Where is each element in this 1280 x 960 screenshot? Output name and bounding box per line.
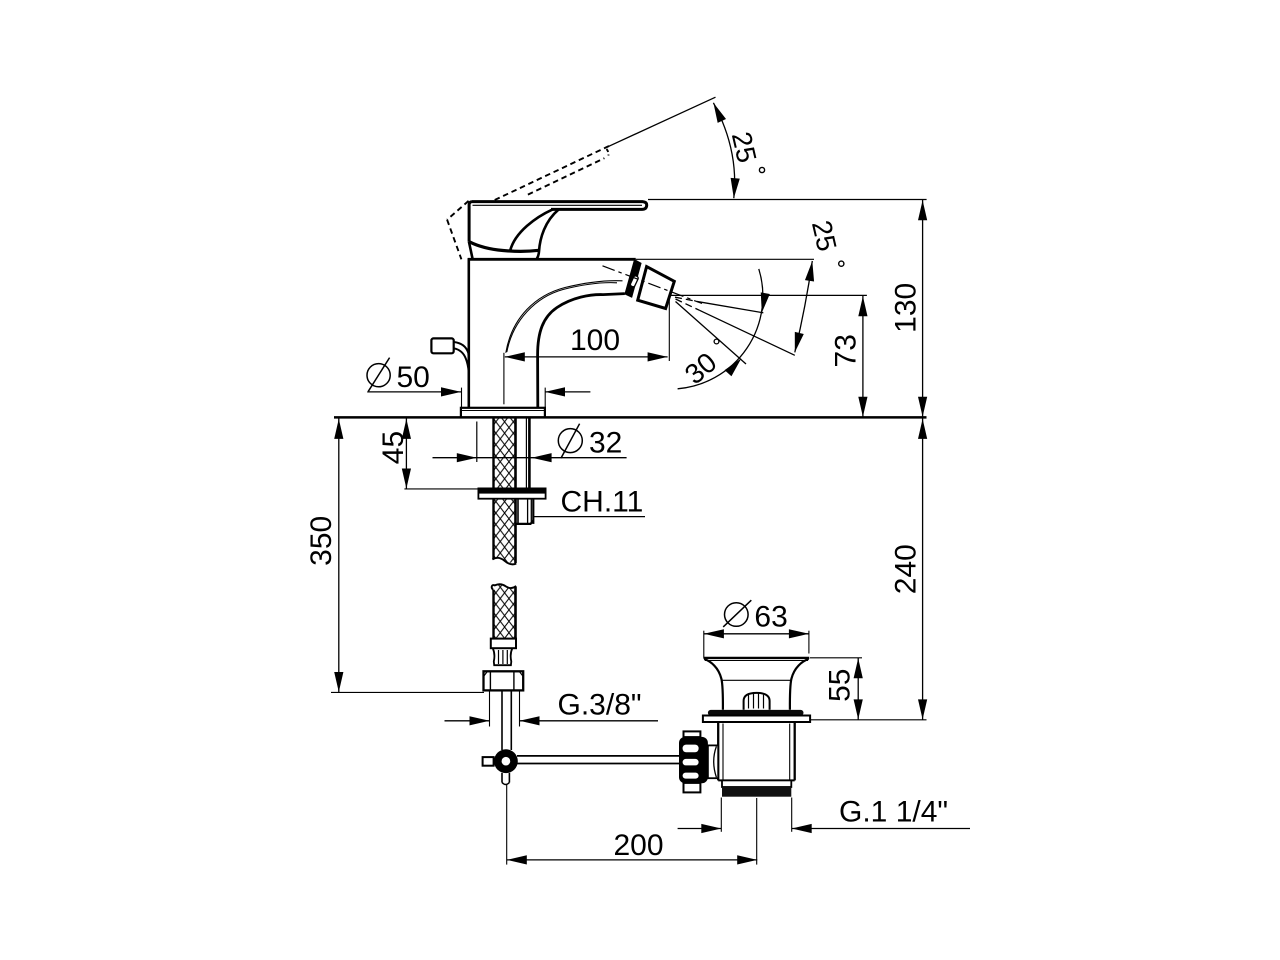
drain rubber washer (708, 710, 804, 716)
svg-text:45: 45 (377, 431, 410, 464)
svg-text:G.1 1/4": G.1 1/4" (839, 796, 948, 829)
angle arc 25 lower (790, 260, 817, 353)
angle arc 30 (678, 269, 770, 389)
angle arc 25 top (709, 101, 740, 199)
spray line 40deg (676, 302, 747, 365)
svg-text:240: 240 (890, 544, 923, 594)
svg-text:100: 100 (570, 324, 620, 357)
svg-text:50: 50 (397, 361, 430, 394)
rod ball joint (483, 749, 518, 773)
spray line 9deg (675, 297, 763, 313)
svg-text:G.3/8": G.3/8" (558, 689, 642, 722)
dimension 45 (377, 419, 479, 489)
rod clamp connector (708, 745, 718, 778)
dimension 73 (829, 296, 867, 417)
pop-up rod tube (502, 690, 511, 750)
dimension 130 (648, 200, 927, 418)
hose end collar (491, 639, 516, 649)
label 25 deg lower (806, 217, 844, 266)
svg-text:55: 55 (824, 669, 857, 702)
threaded shank below deck (477, 419, 530, 489)
drain flange trumpet (704, 658, 810, 710)
dimension 240 (811, 419, 927, 720)
horizontal rod to drain (517, 756, 679, 764)
hex nut CH11 (516, 499, 533, 524)
svg-text:130: 130 (890, 283, 923, 333)
svg-text:CH.11: CH.11 (561, 486, 644, 519)
braided hose upper (494, 419, 516, 489)
dimension 350 (305, 419, 484, 693)
handle lever plate (469, 202, 647, 242)
drain body (718, 722, 795, 780)
rod below ball (502, 773, 509, 785)
label 30 deg (679, 339, 723, 390)
svg-text:350: 350 (305, 516, 338, 566)
faucet body (468, 258, 636, 408)
handle neck (510, 209, 558, 258)
label CH.11 (534, 486, 646, 519)
dimension G 1 1/4 (678, 796, 970, 834)
svg-text:63: 63 (754, 601, 787, 634)
G 3/8 connector nut (484, 671, 524, 690)
spout highlight curves (506, 281, 623, 353)
aerator top reference line (636, 258, 814, 260)
drain lower band (722, 780, 791, 787)
svg-text:200: 200 (614, 829, 664, 862)
hose crimp section (493, 648, 513, 665)
aerator head (625, 260, 674, 309)
braided hose middle (492, 499, 516, 576)
raised handle dashed outline (447, 146, 609, 259)
handle 25 deg reference line (606, 97, 716, 148)
svg-text:73: 73 (829, 334, 862, 367)
dimension 200 (507, 784, 758, 865)
dimension dia 32 (433, 424, 627, 463)
drain washer plate (703, 716, 810, 723)
dimension G 3/8 (445, 689, 659, 727)
dimension dia 50 (367, 358, 590, 408)
dimension 55 (810, 658, 863, 720)
spray line horizontal (73 extension) (671, 294, 867, 296)
aerator axis dash-dot (603, 266, 703, 304)
faucet base plinth (461, 408, 545, 417)
spray line 25deg (676, 299, 795, 355)
dimension dia 63 (704, 600, 809, 658)
handle skirt (469, 242, 539, 259)
dimension 100 (504, 297, 669, 404)
knurled rod nut (679, 731, 708, 792)
pop-up rod knob (431, 338, 468, 371)
drain tail thread G 1 1/4 (722, 787, 791, 797)
label 25 deg top (726, 129, 765, 173)
braided hose lower (492, 578, 516, 639)
drain pull knob (744, 693, 770, 710)
horseshoe washer (478, 488, 545, 498)
svg-text:32: 32 (589, 427, 622, 460)
deck line (334, 416, 927, 419)
